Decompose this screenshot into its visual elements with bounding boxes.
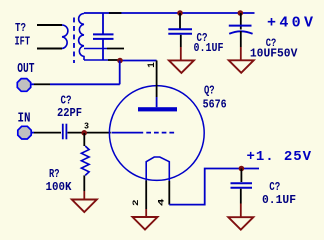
transformer T1 core (dashed) bbox=[73, 18, 75, 64]
svg-text:Q?: Q? bbox=[204, 84, 215, 98]
tube grid electrode (dashed) bbox=[146, 132, 174, 134]
svg-text:+1. 25V: +1. 25V bbox=[247, 149, 312, 165]
wire: node 3 down to resistor bbox=[83, 133, 85, 146]
transformer T1 secondary winding bbox=[79, 14, 84, 61]
capacitor C1 22PF plates (vertical) bbox=[62, 124, 64, 140]
wire: transformer bottom lead to plate node bbox=[84, 59, 108, 61]
transformer tap pin (middle lead) bbox=[84, 48, 107, 50]
svg-text:2: 2 bbox=[131, 200, 141, 207]
pin (black) on top rail bbox=[109, 12, 122, 14]
pad IN (octagon) bbox=[18, 126, 31, 139]
svg-text:4: 4 bbox=[156, 199, 166, 207]
resistor bottom lead bbox=[83, 175, 85, 191]
tube grid pin (3) bbox=[112, 132, 144, 134]
svg-text:0.1UF: 0.1UF bbox=[194, 41, 224, 55]
capacitor top C 0.1UF lead to ground bbox=[180, 35, 182, 47]
svg-text:0.1UF: 0.1UF bbox=[262, 193, 296, 207]
junction node 3 (grid) bbox=[81, 130, 87, 136]
capacitor C? 10UF50V top plate bbox=[229, 25, 252, 27]
capacitor 10UF lead to ground bbox=[240, 31, 242, 47]
ground under bottom C 0.1UF bbox=[228, 217, 253, 230]
svg-text:IN: IN bbox=[18, 111, 31, 127]
capacitor C? 0.1UF (bottom) lead bbox=[240, 169, 242, 183]
transformer T1 primary winding bbox=[62, 25, 68, 49]
svg-text:5676: 5676 bbox=[203, 98, 227, 112]
svg-text:1: 1 bbox=[146, 62, 158, 68]
wire: pin 4 to +1.25V net bbox=[169, 169, 259, 205]
svg-text:3: 3 bbox=[84, 121, 89, 131]
pad OUT (octagon) bbox=[17, 79, 30, 92]
cathode pin 2 lead bbox=[145, 181, 147, 210]
tube cathode (house shape) bbox=[146, 157, 169, 181]
tube Q? circle bbox=[109, 86, 204, 181]
svg-text:OUT: OUT bbox=[17, 61, 34, 77]
svg-text:C?: C? bbox=[269, 180, 280, 194]
ground under resistor bbox=[72, 200, 97, 213]
capacitor C? 0.1UF (top) lead bbox=[179, 13, 181, 29]
resistor R1 zigzag bbox=[81, 146, 89, 175]
capacitor C? 10UF50V lead bbox=[240, 13, 242, 30]
capacitor C? 0.1UF (top) plates bbox=[168, 28, 192, 30]
junction node: rail at C 0.1UF (top) bbox=[177, 10, 183, 16]
transformer T1 primary top pin bbox=[37, 24, 62, 26]
ground under top C 0.1UF bbox=[169, 60, 194, 73]
ground under pin 2 bbox=[133, 217, 158, 230]
svg-text:IFT: IFT bbox=[15, 35, 31, 49]
wire: C 22PF to grid node bbox=[68, 132, 111, 134]
junction node: rail at C 10UF50V bbox=[238, 10, 244, 16]
wire: +40V rail (top) bbox=[84, 12, 255, 14]
tube plate pin (1) bbox=[156, 97, 158, 107]
transformer T1 primary bottom pin bbox=[37, 48, 62, 50]
svg-text:T?: T? bbox=[15, 21, 26, 35]
ground under C 10UF50V bbox=[229, 60, 254, 73]
capacitor bottom lead to ground bbox=[240, 189, 242, 204]
wire: OUT to plate node bbox=[31, 83, 34, 85]
tank capacitor plates bbox=[93, 33, 114, 35]
capacitor C? 0.1UF (bottom) plates bbox=[231, 182, 253, 184]
tube plate bar bbox=[138, 107, 177, 111]
cathode pin 4 lead bbox=[168, 181, 170, 205]
svg-text:10UF50V: 10UF50V bbox=[250, 47, 298, 61]
svg-text:100K: 100K bbox=[46, 180, 73, 194]
svg-text:22PF: 22PF bbox=[57, 106, 82, 120]
tank capacitor (inside IFT) vertical leads bbox=[102, 13, 104, 34]
svg-text:R?: R? bbox=[49, 167, 60, 181]
junction node at C 0.1UF (bottom) bbox=[239, 166, 245, 172]
wire: IN to C? 22PF bbox=[32, 132, 35, 134]
junction node: plate node bbox=[117, 58, 123, 64]
capacitor C? 10UF50V bottom plate (curved) bbox=[229, 31, 252, 34]
